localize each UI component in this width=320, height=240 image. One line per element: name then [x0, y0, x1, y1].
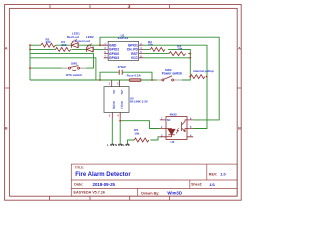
- resistor R4: [169, 52, 186, 56]
- svg-text:SW1: SW1: [71, 61, 78, 65]
- svg-text:EASYEDA V5.7.26: EASYEDA V5.7.26: [74, 191, 105, 195]
- wire bottom rail: [30, 77, 190, 80]
- svg-text:330: 330: [61, 43, 66, 47]
- svg-text:GPIO3: GPIO3: [109, 56, 119, 60]
- svg-text:10k: 10k: [148, 42, 153, 46]
- opto transistor: [182, 120, 188, 132]
- LED LED1: [72, 39, 79, 48]
- border frame inner: [9, 8, 237, 196]
- wire left bus: [29, 45, 31, 80]
- fuse F1 0.2A: [129, 79, 141, 82]
- svg-text:NC: NC: [167, 119, 171, 122]
- resistor R5: [134, 138, 148, 142]
- wire CH_PD pullups: [143, 49, 190, 76]
- svg-text:A: A: [5, 46, 8, 51]
- net port G: [126, 143, 130, 146]
- svg-text:N: N: [115, 143, 117, 147]
- frame ticks top: [50, 5, 170, 9]
- svg-text:+Vo: +Vo: [120, 90, 124, 95]
- svg-text:470uF: 470uF: [118, 65, 127, 69]
- svg-text:-Vo: -Vo: [112, 90, 116, 95]
- title block: [71, 164, 237, 196]
- svg-text:2018-09-25: 2018-09-25: [93, 182, 116, 187]
- frame ticks bottom: [50, 196, 170, 200]
- wire cap branch: [100, 72, 152, 80]
- opto light arrow: [176, 128, 179, 134]
- svg-text:Date:: Date:: [74, 183, 83, 187]
- svg-text:VCC: VCC: [131, 56, 139, 60]
- svg-text:Green Led: Green Led: [75, 39, 90, 43]
- resistor R3: [150, 47, 165, 51]
- svg-text:U3: U3: [171, 140, 175, 144]
- svg-text:TITLE:: TITLE:: [75, 165, 84, 169]
- resistor internal pullup: [190, 75, 204, 79]
- wire row2 GPIO2-LED2: [30, 48, 104, 50]
- svg-text:A: A: [238, 46, 241, 51]
- svg-text:4N35: 4N35: [170, 113, 178, 117]
- svg-text:Fuse 0.2A: Fuse 0.2A: [127, 74, 142, 78]
- switch SW1: [62, 67, 86, 69]
- svg-text:REV:: REV:: [209, 173, 218, 177]
- wire RST row: [143, 53, 190, 55]
- wire R5 net: [128, 137, 160, 143]
- junction dots: [29, 44, 207, 121]
- frame ticks left right: [5, 87, 242, 89]
- net port N: [118, 143, 122, 146]
- resistor R1: [56, 47, 72, 51]
- net port L: [110, 143, 114, 146]
- wire row1 GND-LED1: [30, 44, 104, 46]
- svg-text:Power switch: Power switch: [162, 71, 182, 75]
- svg-text:G: G: [122, 143, 124, 147]
- svg-text:L: L: [107, 143, 109, 147]
- svg-text:HI-LINK 3.3V: HI-LINK 3.3V: [130, 100, 148, 104]
- optocoupler U3 4N35: [166, 117, 187, 140]
- wire row3 to SW1: [30, 54, 94, 69]
- wire SW1 left: [30, 67, 62, 69]
- svg-text:OTA switch: OTA switch: [66, 73, 82, 77]
- svg-text:Fire Alarm Detector: Fire Alarm Detector: [75, 172, 131, 178]
- wire HLK bottom to ports: [112, 119, 120, 143]
- wire GND top loop: [100, 37, 219, 120]
- capacitor 470uF: [119, 70, 122, 75]
- svg-text:ESP-01: ESP-01: [118, 36, 129, 40]
- svg-text:10k: 10k: [177, 47, 182, 51]
- wire VCC row: [143, 57, 190, 59]
- svg-text:B: B: [5, 125, 8, 130]
- svg-text:AC(L): AC(L): [120, 101, 124, 109]
- svg-text:Drawn By:: Drawn By:: [141, 191, 159, 195]
- svg-text:2: 2: [128, 5, 130, 9]
- svg-text:Wim3D: Wim3D: [167, 191, 182, 196]
- svg-text:1.0: 1.0: [220, 172, 225, 177]
- LED LED2: [87, 44, 94, 52]
- module U2 HI-LINK: [104, 87, 129, 113]
- svg-text:10k: 10k: [134, 131, 139, 135]
- opto LED: [168, 129, 175, 135]
- svg-text:internal pullup: internal pullup: [193, 69, 214, 73]
- svg-text:330: 330: [46, 40, 51, 44]
- wire row4: [30, 58, 96, 80]
- svg-text:AC(N): AC(N): [112, 101, 116, 109]
- resistor R2: [41, 43, 55, 47]
- svg-text:Sheet:: Sheet:: [191, 183, 202, 187]
- IC U1 ESP-01: [108, 41, 138, 60]
- border frame outer: [5, 5, 242, 201]
- wire HLK to opto pin2: [120, 121, 160, 129]
- wire TX to opto: [143, 45, 207, 128]
- switch SW2: [157, 79, 182, 81]
- svg-text:1/1: 1/1: [209, 182, 215, 187]
- svg-text:B: B: [238, 125, 241, 130]
